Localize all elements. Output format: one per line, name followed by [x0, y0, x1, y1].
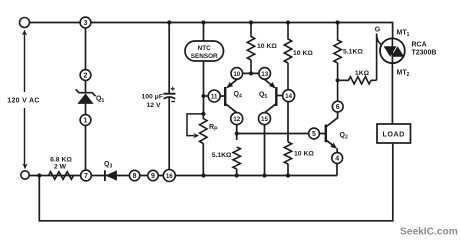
- svg-text:9: 9: [151, 173, 155, 180]
- node 5: [309, 128, 320, 139]
- junction: 10K left top: [249, 20, 253, 24]
- wire: triac MT2 to load: [391, 63, 393, 124]
- junction: Q4 collector tap: [235, 131, 239, 135]
- terminal: AC input top-left: [20, 18, 30, 28]
- node 2: [80, 70, 91, 81]
- wire: Q2 base drive: [237, 133, 309, 135]
- node 14: [283, 90, 295, 102]
- svg-text:11: 11: [211, 93, 218, 100]
- svg-text:10 KΩ: 10 KΩ: [257, 43, 277, 50]
- wire: capacitor column: [168, 23, 170, 170]
- triac RCA T2300B: [375, 27, 437, 79]
- load box: [377, 124, 411, 143]
- wire: bottom return loop to load: [39, 144, 393, 221]
- svg-text:5.1KΩ: 5.1KΩ: [343, 49, 363, 56]
- transistor Q4 (PNP left of diff pair): [220, 80, 242, 113]
- node 13: [259, 68, 271, 80]
- node 3: [80, 17, 91, 28]
- zener diode Q1: [76, 89, 105, 104]
- svg-text:10 KΩ: 10 KΩ: [293, 50, 313, 57]
- svg-text:16: 16: [166, 173, 173, 180]
- resistor 5.1 KOhm (Q4 collector load): [212, 147, 241, 176]
- junction: gate tap: [336, 78, 340, 82]
- junction: capacitor top: [167, 20, 171, 24]
- svg-text:10: 10: [233, 71, 240, 78]
- terminal: AC input bottom-left: [21, 171, 29, 179]
- wire: node12 to 5.1K column: [236, 125, 238, 140]
- node 11: [208, 90, 220, 102]
- svg-text:120 V AC: 120 V AC: [7, 98, 40, 105]
- svg-text:6: 6: [336, 104, 340, 111]
- junction: NTC top: [201, 20, 205, 24]
- source label: 120 V AC with arrows: [7, 30, 40, 170]
- node 8: [129, 170, 139, 180]
- svg-text:RCA: RCA: [412, 42, 427, 49]
- wire: top supply rail (node3 rail to triac MT1): [30, 22, 393, 24]
- resistor 6.8 KOhm 2 W: [49, 157, 74, 180]
- wire: triac MT1 lead from top rail: [392, 22, 394, 39]
- svg-text:12 V: 12 V: [147, 102, 161, 109]
- potentiometer RP 5.1K body: [187, 114, 218, 176]
- node 16: [163, 170, 175, 182]
- junction: node15 bottom: [262, 173, 266, 177]
- wire: node14 column down: [287, 102, 289, 142]
- svg-text:T2300B: T2300B: [412, 50, 437, 57]
- svg-text:12: 12: [233, 116, 240, 123]
- junction: 10K left bottom: [249, 71, 253, 75]
- svg-text:8: 8: [133, 173, 137, 180]
- svg-text:13: 13: [261, 71, 268, 78]
- junction: node-11 tap: [201, 94, 205, 98]
- node 1: [80, 115, 91, 126]
- svg-text:G: G: [375, 27, 381, 34]
- capacitor 100uF 12V electrolytic: [141, 87, 175, 109]
- svg-text:3: 3: [84, 20, 88, 27]
- junction: Rp bottom: [201, 173, 205, 177]
- junction: bottom-left return tap: [37, 173, 41, 177]
- svg-text:SeekIC.com: SeekIC.com: [400, 227, 458, 238]
- node 9: [148, 170, 158, 180]
- junction: 5.1K top rail: [336, 20, 340, 24]
- wire: node15 column to bottom rail: [264, 125, 266, 176]
- svg-text:4: 4: [335, 155, 339, 162]
- junction: 10K right top: [286, 20, 290, 24]
- junction: 10K bottom rail: [286, 173, 290, 177]
- transistor Q2 (NPN driver): [319, 112, 348, 153]
- node 7: [81, 170, 92, 181]
- svg-text:7: 7: [84, 173, 88, 180]
- wire: zener column node3-node2-Q1-node1-node7: [85, 28, 87, 171]
- resistor 5.1 KOhm (collector load of Q2): [334, 23, 363, 102]
- wire: node 11 tap: [204, 95, 209, 97]
- junction: Rp top: [201, 112, 205, 116]
- wire: bottom rail: [29, 163, 337, 176]
- transistor Q5 (PNP right of diff pair): [259, 80, 283, 113]
- svg-text:1: 1: [84, 117, 88, 124]
- svg-text:100 μF: 100 μF: [141, 93, 163, 100]
- resistor 10 KOhm (left, to diff pair): [247, 23, 277, 74]
- svg-text:10 KΩ: 10 KΩ: [294, 151, 314, 158]
- node 6: [332, 101, 343, 112]
- svg-text:2: 2: [84, 72, 88, 79]
- resistor 1 KOhm (gate series): [338, 34, 377, 85]
- svg-text:6.8 KΩ: 6.8 KΩ: [50, 157, 72, 164]
- wire: node10-node13 emitter link: [243, 72, 259, 74]
- svg-text:1KΩ: 1KΩ: [355, 70, 370, 77]
- svg-text:15: 15: [261, 116, 268, 123]
- NTC sensor: [185, 41, 224, 61]
- svg-text:5.1KΩ: 5.1KΩ: [212, 152, 232, 159]
- node 15: [259, 113, 271, 125]
- svg-text:SENSOR: SENSOR: [191, 53, 218, 60]
- node 10: [231, 68, 243, 80]
- node 4: [332, 153, 343, 164]
- svg-text:LOAD: LOAD: [383, 130, 405, 139]
- svg-text:5: 5: [312, 131, 316, 138]
- junction: 5.1K bottom: [235, 173, 239, 177]
- svg-text:14: 14: [285, 93, 292, 100]
- wire: NTC sensor column: [203, 23, 205, 116]
- resistor 10 KOhm (right, to node 14): [284, 23, 313, 90]
- svg-text:2 W: 2 W: [54, 164, 67, 171]
- node 12: [231, 113, 243, 125]
- resistor 10 KOhm (bottom, base divider): [284, 142, 314, 176]
- svg-text:NTC: NTC: [198, 45, 212, 52]
- diode Q3: [104, 161, 117, 181]
